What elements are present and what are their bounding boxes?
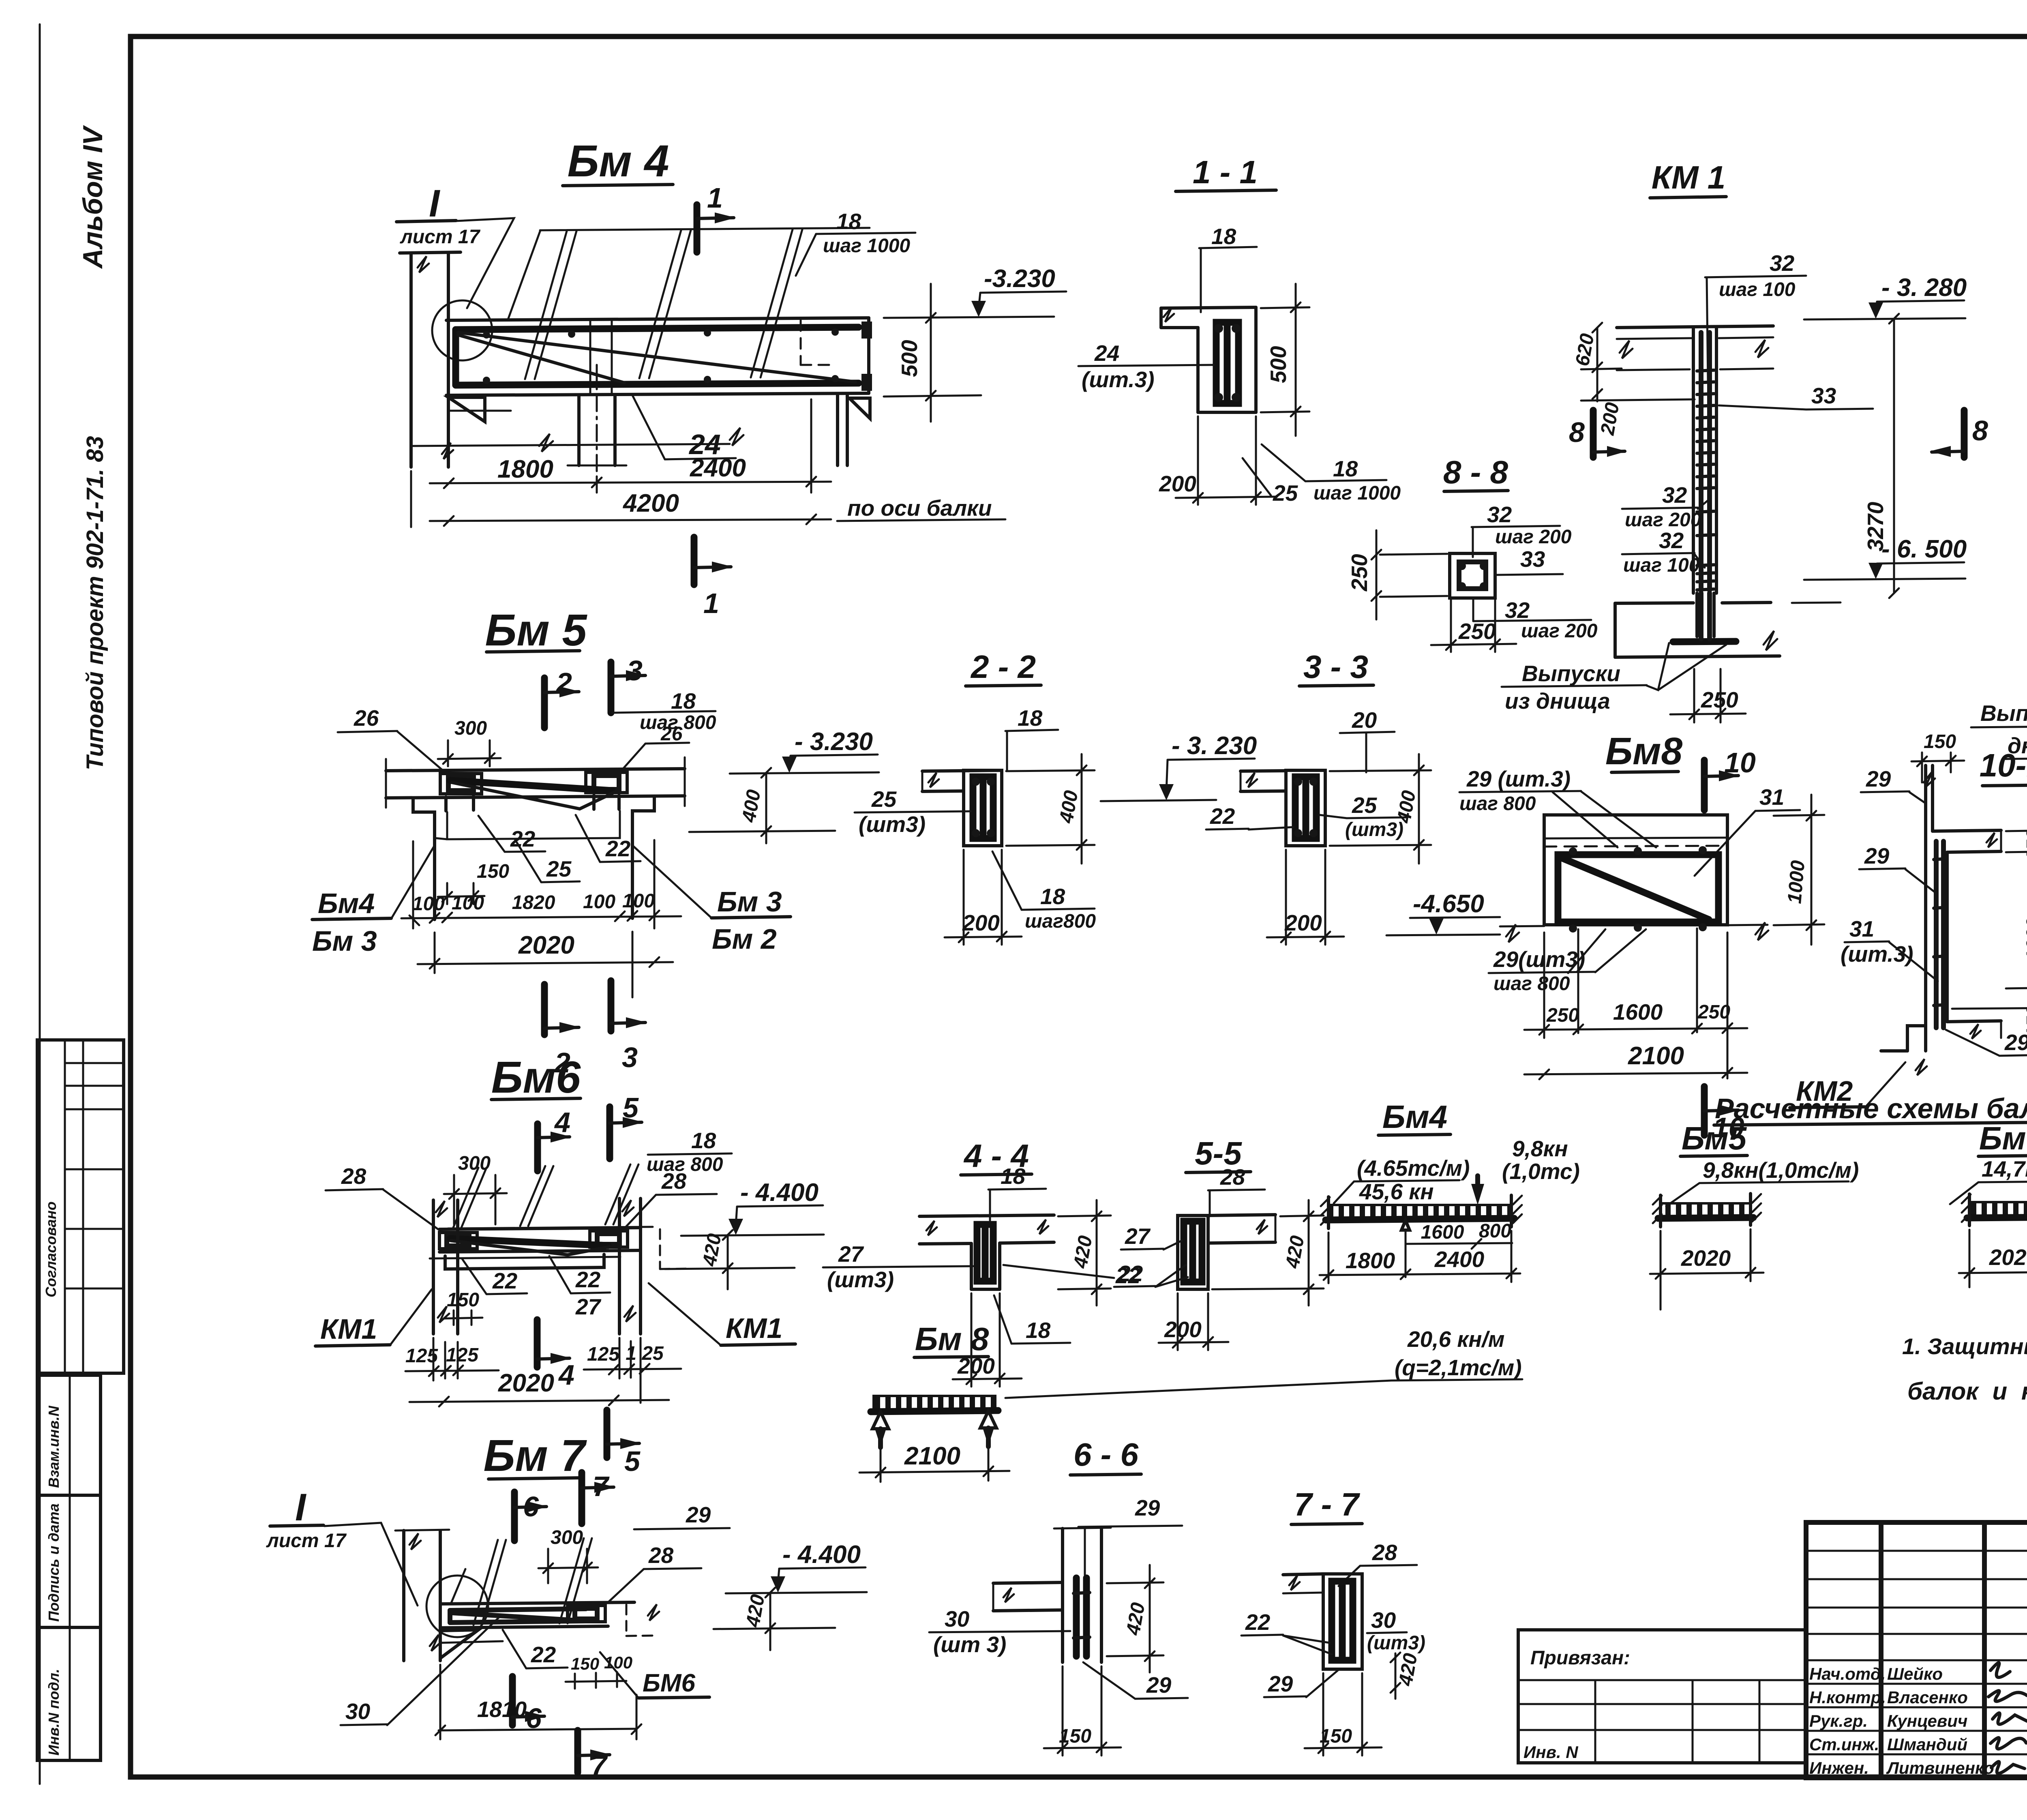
svg-text:33: 33 [1811,383,1836,408]
svg-text:800: 800 [1479,1220,1511,1242]
svg-text:шаг800: шаг800 [1025,911,1096,932]
hooks under plates [444,797,448,811]
svg-text:620: 620 [1572,332,1598,368]
svg-text:250: 250 [1546,1005,1579,1026]
slab line inside top [1544,838,1727,838]
svg-text:лист 17: лист 17 [400,226,481,248]
right end plates [861,322,872,339]
slab top line above beam [540,228,870,230]
bottom support bracket [440,1630,478,1658]
svg-text:3: 3 [627,655,643,686]
bent diagonal bar [458,332,855,382]
svg-text:I: I [295,1486,307,1529]
svg-text:30: 30 [1371,1608,1396,1633]
7 bottom mark [574,1730,581,1773]
200 dim [971,1293,973,1387]
dim line 4200 [430,519,831,521]
dims 1600 800 [1405,1230,1407,1277]
rebar dots on top [483,331,490,339]
wall support left [409,253,413,467]
svg-text:18: 18 [671,688,696,714]
svg-text:30: 30 [345,1699,371,1724]
420 vdim [769,1593,771,1650]
Привязан box [1518,1630,1806,1763]
svg-text:10-10: 10-10 [1980,747,2027,783]
420 vdim [727,1235,729,1289]
rebar [450,1609,586,1610]
svg-text:150: 150 [1924,731,1956,752]
ties sparse [1697,511,1714,512]
svg-text:45,6 кн: 45,6 кн [1359,1179,1433,1204]
signatures squiggles [1991,1663,2010,1677]
svg-text:250: 250 [1701,687,1738,712]
section mark 2 bottom [541,984,548,1035]
left fixed support [1327,1197,1330,1228]
svg-text:1000: 1000 [2023,918,2027,961]
5 bottom mark [604,1410,611,1458]
left thin margin line [39,24,41,1784]
svg-text:шаг 1000: шаг 1000 [1313,482,1401,504]
svg-text:8: 8 [1569,416,1585,448]
svg-text:2100: 2100 [904,1442,960,1470]
150 bottom rotated [2006,988,2027,988]
svg-text:Кунцевич: Кунцевич [1887,1711,1967,1730]
svg-text:3: 3 [622,1042,638,1073]
svg-text:Инв. N: Инв. N [1523,1743,1579,1762]
beam stem [970,1243,973,1289]
svg-text:29: 29 [1268,1671,1293,1696]
left flange small [1241,771,1286,771]
svg-text:100: 100 [583,891,615,913]
1000 vdim right [1774,815,1824,816]
rebar bars [1934,841,1939,1028]
svg-text:420: 420 [699,1232,725,1268]
svg-text:29: 29 [1864,843,1890,868]
dim line 1800 / 2400 [410,471,412,527]
420 vdim right [1395,1653,1397,1699]
svg-text:29 (шт.3): 29 (шт.3) [1466,766,1571,791]
svg-text:Литвиненко: Литвиненко [1886,1758,1994,1777]
svg-text:300: 300 [551,1527,583,1548]
svg-text:32: 32 [1659,528,1684,553]
svg-text:10: 10 [1724,747,1756,778]
svg-text:БМ6: БМ6 [643,1669,696,1697]
rebar dots [1569,847,1577,855]
right anchor plate [586,772,627,793]
svg-text:400: 400 [1055,789,1082,825]
svg-text:200: 200 [1284,910,1322,935]
beam [1178,1215,1208,1289]
150 dim [1322,1673,1324,1756]
triangle supports with arrows [872,1412,889,1429]
svg-text:Рук.гр.: Рук.гр. [1809,1711,1868,1730]
svg-text:200: 200 [962,910,1000,935]
svg-text:9,8кн(1,0тс/м): 9,8кн(1,0тс/м) [1703,1158,1859,1183]
svg-text:4: 4 [558,1359,574,1391]
stamp table: Согласовано [37,1040,124,1373]
svg-text:5: 5 [624,1445,641,1477]
svg-text:29: 29 [686,1502,711,1527]
name rows [1806,1659,2027,1661]
left anchor plate [440,774,482,794]
svg-text:18: 18 [1018,705,1043,731]
500 vdim [930,284,932,422]
ties dense bottom [1697,565,1714,566]
rebar cage [1216,322,1238,403]
svg-text:- 4.400: - 4.400 [782,1541,861,1569]
svg-text:1 - 1: 1 - 1 [1193,154,1258,190]
svg-text:(шт3): (шт3) [827,1267,894,1292]
svg-text:- 6. 500: - 6. 500 [1881,535,1967,563]
svg-text:125: 125 [446,1344,479,1366]
svg-text:22: 22 [575,1267,601,1292]
svg-text:22: 22 [531,1642,556,1667]
svg-text:(4.65тс/м): (4.65тс/м) [1357,1155,1470,1181]
svg-text:22: 22 [1118,1261,1143,1286]
400 vdim [765,773,767,843]
svg-text:7 - 7: 7 - 7 [1294,1486,1361,1522]
svg-text:шаг 800: шаг 800 [1459,793,1536,815]
svg-text:29: 29 [1135,1495,1160,1520]
250 left vdim [1380,554,1447,555]
svg-text:по оси балки: по оси балки [847,495,992,521]
svg-text:25: 25 [1273,480,1298,506]
svg-text:-3.230: -3.230 [984,265,1055,293]
right dashed continuation [626,1605,628,1636]
svg-text:150: 150 [477,861,509,882]
vertical dividers of signature table [1879,1522,1883,1778]
svg-text:8 - 8: 8 - 8 [1443,454,1508,490]
svg-text:25: 25 [1352,793,1378,818]
svg-text:500: 500 [897,340,922,377]
svg-text:18: 18 [1040,884,1065,909]
right fixed support [1510,1195,1513,1227]
svg-text:25: 25 [871,787,897,812]
svg-text:22: 22 [492,1268,518,1293]
bottom section mark 1 [691,537,698,585]
flange right [1208,1215,1275,1215]
svg-text:шаг 100: шаг 100 [1719,279,1796,300]
svg-text:420: 420 [1069,1234,1096,1270]
svg-text:18: 18 [691,1128,716,1153]
svg-text:18: 18 [1333,456,1358,481]
title block outer [1806,1522,2027,1778]
svg-text:Бм6: Бм6 [491,1053,581,1102]
svg-text:150: 150 [2023,829,2027,862]
svg-text:2020: 2020 [1989,1245,2027,1270]
rebar [977,1224,993,1281]
svg-text:18: 18 [1001,1164,1026,1189]
svg-text:22: 22 [1245,1610,1271,1635]
6 bottom mark [509,1676,516,1725]
slab flange left [922,770,1001,771]
svg-text:27: 27 [1125,1224,1151,1249]
bottom angles [445,1254,604,1269]
svg-text:шаг 100: шаг 100 [1623,555,1700,576]
200 dim [1177,1293,1179,1350]
svg-text:31: 31 [1849,916,1874,941]
svg-text:420: 420 [742,1593,769,1629]
svg-text:22: 22 [605,836,631,861]
svg-text:100: 100 [622,890,655,912]
svg-text:(1,0тс): (1,0тс) [1502,1159,1580,1184]
big diagonal [1562,858,1709,920]
svg-text:Бм 4: Бм 4 [568,136,669,186]
svg-text:500: 500 [1266,346,1291,383]
svg-text:2020: 2020 [498,1369,554,1397]
420 vdim [1058,1215,1111,1216]
svg-text:КМ1: КМ1 [726,1312,782,1344]
svg-text:(шт.3): (шт.3) [1082,367,1155,392]
svg-text:2400: 2400 [690,454,746,482]
svg-text:I: I [429,182,441,225]
leader to detail circle [456,218,514,308]
svg-text:Типовой проект 902-1-71. 83: Типовой проект 902-1-71. 83 [82,436,108,770]
svg-text:Власенко: Власенко [1887,1688,1968,1707]
svg-text:балок и колонн принят 25мм.: балок и колонн принят 25мм. [1907,1378,2027,1405]
svg-text:1800: 1800 [1346,1248,1395,1273]
column outline [1692,328,1695,593]
svg-text:18: 18 [1026,1318,1051,1343]
svg-text:Выпуски из: Выпуски из [1980,701,2027,726]
top slab band [1617,326,1773,328]
svg-text:28: 28 [661,1168,687,1194]
slab flange across [919,1215,1054,1216]
svg-text:32: 32 [1505,598,1530,623]
slab diagonals above beam [474,1540,498,1625]
svg-text:29: 29 [2004,1030,2027,1055]
svg-text:Бм 3: Бм 3 [312,925,377,957]
500 vertical dim right [1261,307,1309,308]
svg-text:32: 32 [1662,482,1687,508]
svg-text:Бм 3: Бм 3 [717,886,782,918]
svg-text:Инжен.: Инжен. [1809,1758,1869,1777]
slab diagonals [525,231,567,379]
svg-text:- 3. 230: - 3. 230 [1172,732,1257,760]
svg-text:Бм 5: Бм 5 [485,605,588,655]
svg-text:20: 20 [1352,707,1377,733]
400 vdim right [1330,770,1431,771]
diagonal bars [450,780,612,791]
svg-text:150: 150 [1320,1726,1352,1747]
svg-text:22: 22 [510,826,536,851]
dim 2100 [1524,1073,1747,1074]
250 bottom dim [1450,599,1452,652]
svg-text:Бм5: Бм5 [1682,1120,1747,1156]
svg-text:32: 32 [1487,502,1512,527]
slab diagonals above beam [453,1168,478,1228]
svg-text:- 3. 280: - 3. 280 [1881,274,1967,302]
svg-text:29: 29 [1866,766,1891,791]
svg-text:2 - 2: 2 - 2 [970,649,1036,685]
svg-text:150: 150 [1059,1726,1091,1747]
svg-text:лист 17: лист 17 [266,1530,347,1552]
420 vdim [1107,1582,1163,1583]
supports columns [432,1200,435,1334]
svg-text:Шейко: Шейко [1887,1664,1943,1683]
svg-text:27: 27 [838,1241,864,1267]
3270 vertical dim [1893,319,1895,593]
svg-text:27: 27 [575,1294,602,1319]
svg-text:420: 420 [1395,1652,1421,1688]
mid triangle support [1401,1220,1410,1230]
svg-text:150: 150 [447,1289,479,1311]
svg-text:КМ1: КМ1 [320,1313,377,1345]
svg-text:Бм6: Бм6 [1979,1120,2027,1156]
svg-text:1. Защитный слой бетона до раб: 1. Защитный слой бетона до рабочей армат… [1902,1333,2027,1359]
svg-text:2020: 2020 [518,931,574,959]
svg-text:150: 150 [571,1654,599,1673]
dims 250 1600 250 [1543,933,1545,1038]
ties rungs dense top [1697,370,1714,371]
horizontal rows upper [1806,1550,2027,1552]
svg-text:Альбом IV: Альбом IV [77,124,108,269]
svg-text:420: 420 [1122,1601,1149,1637]
detail circle [426,1576,488,1637]
beam top/bottom rebar [456,327,859,330]
svg-text:1600: 1600 [1613,999,1663,1025]
svg-text:3 - 3: 3 - 3 [1303,649,1368,685]
beam outer rect [1544,815,1727,925]
wall verticals [1924,765,1927,1051]
svg-text:Инв.N подл.: Инв.N подл. [45,1669,62,1756]
svg-text:250: 250 [1697,1001,1730,1023]
support bracket under beam at wall [448,397,485,422]
10 mark top [1701,760,1708,810]
beam rect [1286,770,1325,846]
svg-text:26: 26 [660,723,683,745]
svg-text:Бм4: Бм4 [1382,1099,1447,1135]
svg-text:28: 28 [1372,1540,1397,1565]
svg-text:250: 250 [1458,619,1496,644]
svg-text:250: 250 [1347,554,1372,592]
svg-text:100: 100 [452,892,484,914]
620 / 200 small dims left [1596,328,1598,401]
svg-text:30: 30 [945,1606,970,1631]
400 vdim [1006,770,1095,771]
stirrup verticals in beam [589,321,591,394]
wall left [402,1531,405,1661]
beam band [439,1228,641,1229]
flange left [993,1582,1063,1583]
svg-text:Бм 2: Бм 2 [712,923,777,955]
dashed adjacent member right [659,1229,661,1269]
svg-text:20,6 кн/м: 20,6 кн/м [1407,1327,1504,1352]
svg-text:Расчетные схемы балок: Расчетные схемы балок [1715,1093,2027,1124]
svg-text:Бм 8: Бм 8 [915,1321,989,1357]
column rebar [1699,332,1703,590]
beam outline [446,318,869,320]
column into foundation [1695,593,1699,637]
svg-text:6 - 6: 6 - 6 [1073,1436,1139,1473]
svg-text:7: 7 [591,1749,608,1781]
svg-text:шаг 1000: шаг 1000 [823,235,910,257]
break mark on beam bottom left [539,434,553,452]
svg-text:18: 18 [836,209,861,234]
svg-text:шаг 800: шаг 800 [1493,973,1570,995]
svg-text:шаг 200: шаг 200 [1521,620,1598,642]
svg-text:8: 8 [1972,415,1988,446]
slab flange left [1161,307,1256,308]
svg-text:2400: 2400 [1434,1247,1485,1272]
svg-text:(шт3): (шт3) [1345,819,1403,840]
detail circle [432,300,492,360]
top-left break flange [1283,1574,1323,1575]
section mark 3 bottom [608,981,615,1031]
svg-text:28: 28 [1220,1164,1245,1190]
4 bottom mark [534,1320,541,1367]
foundation block bottom [1907,1026,1926,1051]
right anchor plate [568,1606,605,1622]
svg-text:-4.650: -4.650 [1413,890,1484,918]
stamp table: Взам.инв / Подпись и дата / Инв.№ подл. [37,1375,101,1760]
svg-text:26: 26 [354,705,379,731]
svg-text:(шт3): (шт3) [859,812,926,837]
svg-text:28: 28 [341,1164,366,1189]
bottom extension lines [1500,926,1544,926]
svg-text:Бм8: Бм8 [1605,730,1683,773]
beam band [440,1602,634,1604]
svg-text:200: 200 [1164,1317,1202,1342]
svg-text:400: 400 [738,788,765,824]
column under beam [577,397,581,465]
wall [1323,1574,1362,1669]
svg-text:Взам.инв.N: Взам.инв.N [45,1405,62,1488]
svg-text:200: 200 [1159,471,1196,496]
svg-text:1600: 1600 [1421,1222,1464,1243]
foundation slab [1615,603,1693,603]
svg-text:Бм 7: Бм 7 [484,1431,587,1481]
beam band [386,769,685,771]
200 dim [963,850,965,945]
svg-text:- 3.230: - 3.230 [795,728,873,756]
svg-text:200: 200 [1596,401,1623,437]
svg-text:КМ 1: КМ 1 [1652,159,1726,195]
svg-text:Бм4: Бм4 [318,887,375,919]
svg-text:Н.контр.: Н.контр. [1809,1688,1886,1707]
420 vdim right [1280,1215,1324,1216]
svg-text:24: 24 [1094,341,1119,366]
beam body [1196,328,1200,412]
svg-text:18: 18 [1211,224,1236,249]
diagonal bar [450,1239,608,1245]
svg-text:1000: 1000 [1784,860,1809,905]
top flange right [1933,830,2001,831]
dashed beam end continuation [800,320,802,365]
anchor plates [439,1233,477,1249]
150 right top rotated [2006,830,2027,831]
beam rect [964,770,1002,846]
svg-text:28: 28 [648,1543,674,1568]
svg-text:1: 1 [707,182,723,214]
svg-text:4200: 4200 [622,489,679,517]
svg-text:25: 25 [546,856,572,881]
svg-text:1: 1 [703,587,719,619]
10 mark bottom [1701,1087,1708,1135]
svg-text:32: 32 [1770,251,1795,276]
svg-text:9,8кн: 9,8кн [1512,1136,1568,1161]
svg-text:125: 125 [587,1344,620,1365]
svg-text:300: 300 [454,718,487,739]
svg-text:400: 400 [1393,789,1420,825]
svg-text:Шмандий: Шмандий [1887,1735,1967,1754]
svg-text:Ст.инж.: Ст.инж. [1809,1735,1879,1754]
svg-text:420: 420 [1281,1234,1308,1270]
150 dim [1062,1666,1064,1756]
svg-text:шаг 200: шаг 200 [1495,526,1572,548]
svg-text:- 4.400: - 4.400 [740,1179,819,1207]
svg-text:29: 29 [1146,1672,1172,1698]
